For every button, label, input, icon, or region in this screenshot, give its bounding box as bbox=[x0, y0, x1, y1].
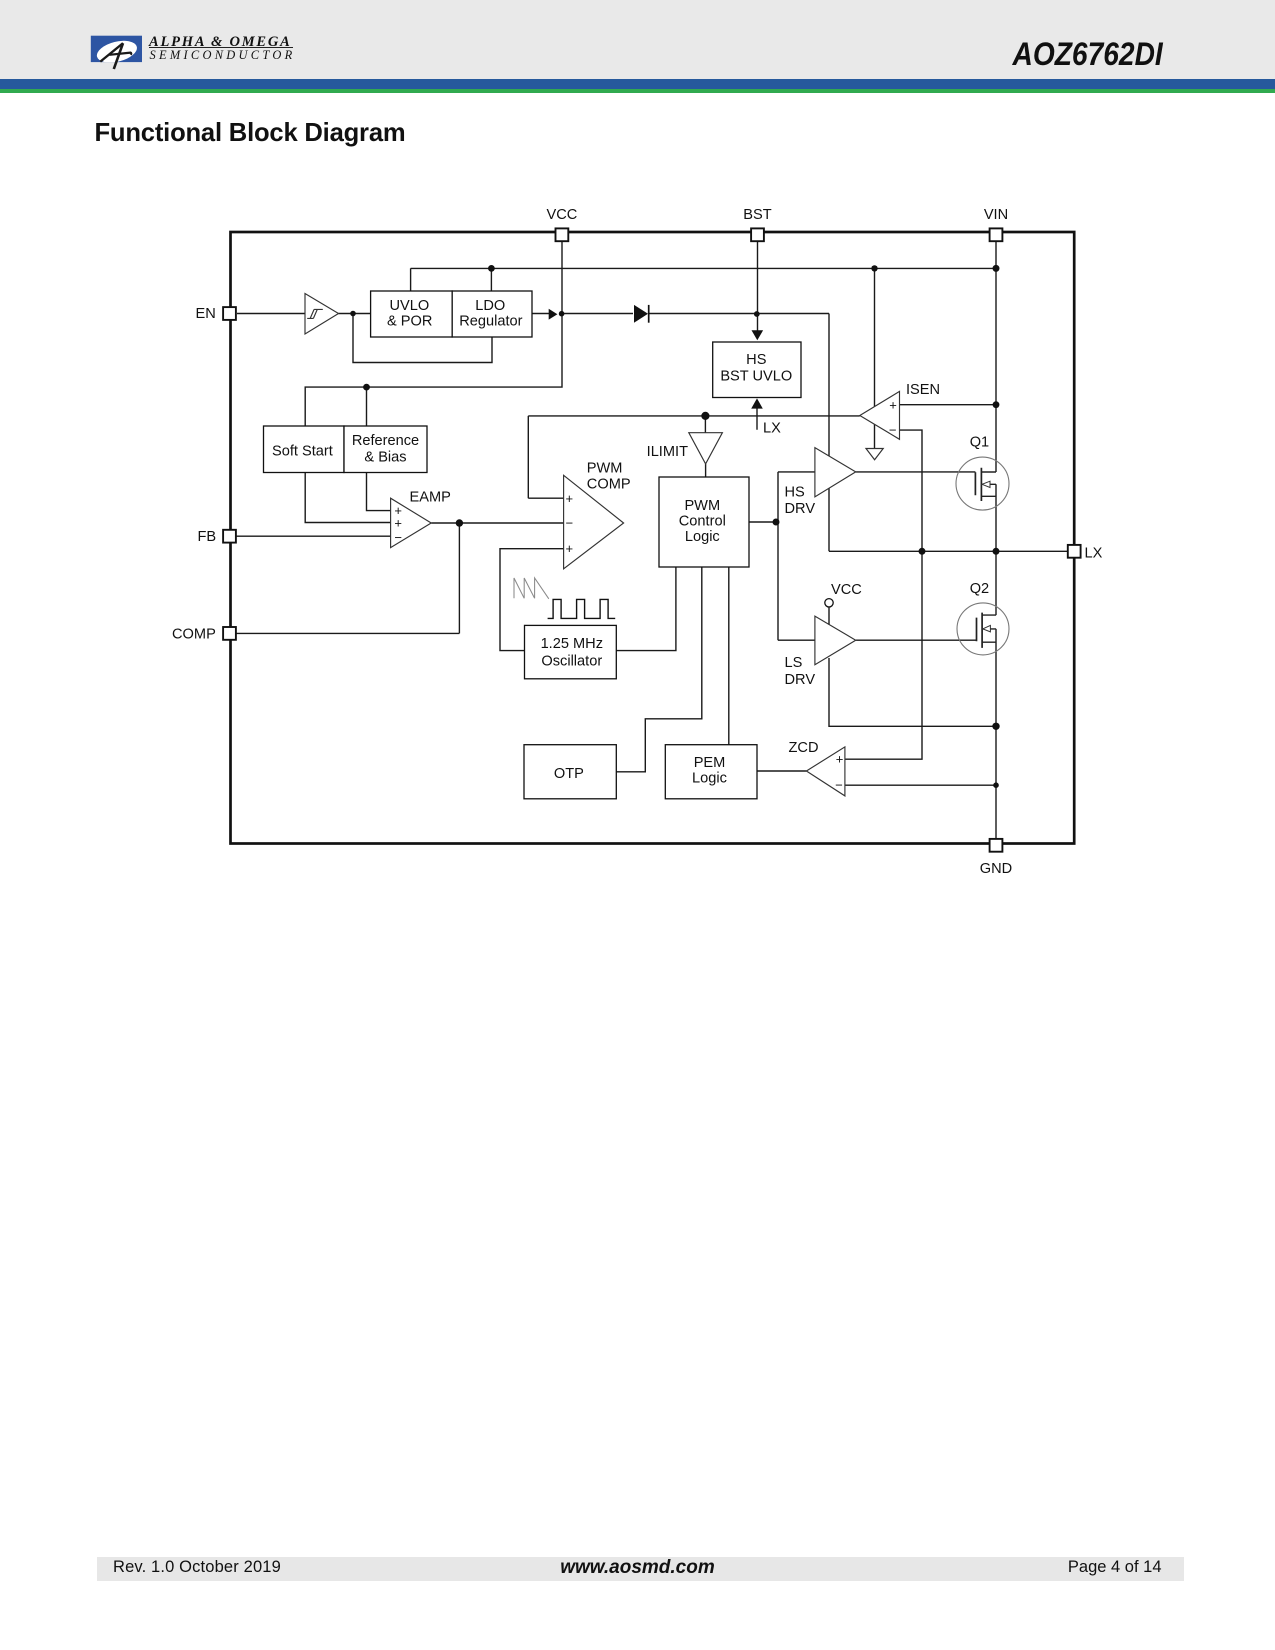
svg-text:DRV: DRV bbox=[785, 672, 816, 688]
svg-text:+: + bbox=[836, 752, 844, 767]
svg-text:Q2: Q2 bbox=[970, 581, 989, 597]
svg-text:−: − bbox=[566, 515, 574, 530]
svg-text:+: + bbox=[566, 541, 574, 556]
svg-text:Control: Control bbox=[679, 513, 726, 529]
svg-text:GND: GND bbox=[980, 861, 1012, 877]
svg-text:Oscillator: Oscillator bbox=[541, 653, 602, 669]
svg-text:−: − bbox=[394, 530, 402, 545]
svg-text:PEM: PEM bbox=[694, 755, 726, 771]
svg-text:EN: EN bbox=[196, 306, 216, 322]
svg-text:ILIMIT: ILIMIT bbox=[647, 444, 688, 460]
svg-text:COMP: COMP bbox=[587, 477, 631, 493]
svg-text:Q1: Q1 bbox=[970, 435, 989, 451]
svg-text:BST: BST bbox=[743, 207, 771, 223]
svg-text:HS: HS bbox=[785, 484, 806, 500]
svg-text:EAMP: EAMP bbox=[410, 490, 451, 506]
svg-text:−: − bbox=[889, 423, 897, 438]
svg-text:LX: LX bbox=[1085, 545, 1103, 561]
svg-text:& Bias: & Bias bbox=[364, 450, 406, 466]
svg-text:Logic: Logic bbox=[685, 529, 720, 545]
svg-text:LX: LX bbox=[763, 421, 781, 437]
svg-text:Logic: Logic bbox=[692, 771, 727, 787]
svg-text:VCC: VCC bbox=[546, 207, 577, 223]
svg-text:LS: LS bbox=[785, 655, 803, 671]
svg-text:+: + bbox=[566, 491, 574, 506]
svg-text:ISEN: ISEN bbox=[906, 382, 940, 398]
svg-text:+: + bbox=[394, 516, 402, 531]
svg-text:PWM: PWM bbox=[684, 498, 720, 514]
svg-text:Reference: Reference bbox=[352, 433, 419, 449]
svg-text:VCC: VCC bbox=[831, 582, 862, 598]
svg-text:LDO: LDO bbox=[475, 298, 505, 314]
svg-text:UVLO: UVLO bbox=[390, 298, 430, 314]
svg-text:−: − bbox=[835, 777, 843, 792]
svg-text:VIN: VIN bbox=[984, 207, 1008, 223]
svg-text:Regulator: Regulator bbox=[459, 314, 522, 330]
svg-text:DRV: DRV bbox=[785, 501, 816, 517]
svg-text:+: + bbox=[889, 397, 897, 412]
svg-text:COMP: COMP bbox=[172, 626, 216, 642]
svg-text:Soft Start: Soft Start bbox=[272, 443, 333, 459]
svg-text:HS: HS bbox=[746, 352, 767, 368]
svg-text:FB: FB bbox=[197, 529, 216, 545]
svg-text:OTP: OTP bbox=[554, 766, 584, 782]
svg-text:1.25 MHz: 1.25 MHz bbox=[541, 636, 603, 652]
svg-text:& POR: & POR bbox=[387, 314, 432, 330]
svg-text:BST UVLO: BST UVLO bbox=[720, 369, 792, 385]
svg-text:PWM: PWM bbox=[587, 461, 623, 477]
svg-text:ZCD: ZCD bbox=[789, 740, 819, 756]
